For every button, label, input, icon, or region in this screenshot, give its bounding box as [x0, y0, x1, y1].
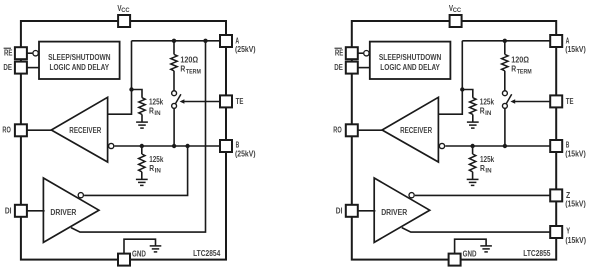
svg-text:IN: IN — [155, 168, 162, 175]
wire DI to driver input — [358, 210, 376, 212]
node switch junction on B line — [172, 144, 176, 148]
switch TE upper contact — [502, 91, 507, 96]
IC outline LTC2855 — [352, 21, 556, 260]
wire switch to B line — [504, 108, 506, 146]
svg-text:GND: GND — [463, 250, 477, 259]
svg-text:(15kV): (15kV) — [565, 199, 586, 208]
svg-text:TE: TE — [236, 97, 244, 106]
op-amp RECEIVER — [51, 97, 107, 162]
pin B — [220, 140, 232, 152]
op-amp RECEIVER — [382, 97, 438, 162]
svg-text:RECEIVER: RECEIVER — [400, 126, 432, 135]
svg-text:IN: IN — [485, 110, 492, 117]
node RIN1 junction — [129, 87, 133, 91]
wire receiver noninverting input — [438, 41, 462, 114]
svg-text:(15kV): (15kV) — [565, 150, 586, 159]
wire driver output to A line — [71, 41, 206, 232]
wire RIN2 to ground — [472, 172, 474, 180]
IC outline LTC2854 — [21, 21, 226, 260]
svg-text:DI: DI — [336, 207, 343, 216]
svg-text:R: R — [149, 163, 154, 173]
pin VCC — [118, 15, 130, 27]
op-amp DRIVER — [43, 178, 99, 242]
driver inverting output bubble — [409, 193, 414, 198]
wire RO to receiver output — [27, 129, 53, 131]
node RTERM junction on A line — [503, 39, 507, 43]
op-amp DRIVER — [374, 178, 430, 242]
pin A — [550, 35, 562, 47]
resistor RIN2 125k — [469, 154, 475, 172]
svg-text:RO: RO — [333, 126, 341, 135]
pin A — [220, 35, 232, 47]
wire RTERM to switch — [504, 71, 506, 91]
svg-text:DI: DI — [5, 207, 12, 216]
node RIN2 junction — [140, 144, 144, 148]
ground RIN2 — [136, 178, 148, 180]
wire to RIN1 — [132, 90, 143, 98]
svg-text:SLEEP/SHUTDOWN: SLEEP/SHUTDOWN — [379, 52, 441, 62]
wire B line — [445, 145, 550, 147]
ground symbol at GND — [480, 245, 492, 247]
svg-text:LOGIC AND DELAY: LOGIC AND DELAY — [50, 62, 110, 72]
wire receiver noninverting input — [108, 41, 132, 114]
svg-text:IN: IN — [485, 168, 492, 175]
arrowhead TE control — [180, 99, 185, 104]
node RTERM junction on A line — [172, 39, 176, 43]
svg-text:LTC2854: LTC2854 — [193, 249, 221, 258]
pin DI — [15, 205, 27, 217]
wire DE to logic block — [27, 67, 39, 69]
wire RTERM lead — [173, 41, 175, 55]
svg-text:DRIVER: DRIVER — [50, 208, 76, 217]
driver inverting output bubble — [78, 193, 83, 198]
wire RIN1 to ground — [472, 114, 474, 122]
svg-text:R: R — [149, 105, 154, 115]
block sleep/shutdown logic and delay — [39, 42, 120, 79]
wire TE control — [184, 101, 221, 103]
pin Y — [550, 226, 562, 238]
resistor RIN2 125k — [139, 154, 145, 172]
pin Z — [550, 189, 562, 201]
svg-text:RECEIVER: RECEIVER — [69, 126, 101, 135]
wire RIN1 to ground — [141, 114, 143, 122]
wire to RIN1 — [462, 90, 473, 98]
pin TE — [220, 95, 232, 107]
svg-text:RE: RE — [4, 48, 13, 57]
resistor RTERM 120ohm — [502, 54, 508, 70]
wire RTERM to switch — [173, 71, 175, 91]
svg-text:SLEEP/SHUTDOWN: SLEEP/SHUTDOWN — [48, 52, 110, 62]
block sleep/shutdown logic and delay — [370, 42, 451, 79]
svg-text:(25kV): (25kV) — [235, 45, 256, 54]
inverter bubble on RE input — [33, 51, 38, 56]
svg-text:(25kV): (25kV) — [235, 150, 256, 159]
wire B line — [115, 145, 221, 147]
node RIN2 junction — [470, 144, 474, 148]
resistor RIN1 125k — [139, 98, 145, 115]
inverter bubble on RE input — [364, 51, 369, 56]
wire RE to inverter bubble — [358, 52, 363, 54]
pin RO — [15, 124, 27, 136]
switch blade — [506, 94, 512, 104]
wire RE to inverter bubble — [27, 52, 33, 54]
pin RE — [15, 47, 27, 59]
switch TE upper contact — [172, 91, 177, 96]
resistor RTERM 120ohm — [171, 54, 177, 70]
pin RO — [346, 124, 358, 136]
svg-text:TERM: TERM — [517, 68, 532, 75]
wire A line — [462, 40, 550, 42]
svg-text:LOGIC AND DELAY: LOGIC AND DELAY — [380, 62, 440, 72]
wire RO to receiver output — [358, 129, 384, 131]
ground RIN1 — [136, 121, 148, 123]
node driver-B junction — [185, 144, 189, 148]
resistor RIN1 125k — [470, 98, 476, 115]
svg-text:DE: DE — [334, 63, 343, 72]
wire RIN2 to ground — [141, 172, 143, 180]
svg-text:CC: CC — [453, 7, 462, 14]
svg-text:Y: Y — [566, 227, 570, 236]
wire GND pin to ground symbol — [455, 239, 487, 253]
pin GND — [449, 254, 461, 266]
node driver-A junction — [203, 39, 207, 43]
switch TE lower contact — [172, 103, 177, 108]
svg-text:DRIVER: DRIVER — [381, 208, 407, 217]
svg-text:R: R — [180, 64, 185, 74]
wire driver inverting output to Z — [415, 194, 550, 196]
wire RIN2 lead — [472, 146, 474, 154]
ground symbol at GND — [150, 245, 162, 247]
pin DE — [15, 62, 27, 74]
wire RTERM lead — [504, 41, 506, 55]
wire switch to B line — [173, 108, 175, 146]
pin DI — [346, 205, 358, 217]
pin B — [550, 140, 562, 152]
pin TE — [550, 95, 562, 107]
switch blade — [175, 94, 181, 104]
svg-text:R: R — [480, 163, 485, 173]
receiver inverting input bubble — [109, 143, 114, 148]
svg-text:DE: DE — [3, 63, 12, 72]
svg-text:GND: GND — [132, 250, 146, 259]
pin VCC — [450, 15, 462, 27]
wire TE control — [514, 101, 550, 103]
pin DE — [346, 62, 358, 74]
pin RE — [346, 47, 358, 59]
svg-text:LTC2855: LTC2855 — [523, 249, 551, 258]
svg-text:IN: IN — [154, 110, 161, 117]
svg-text:R: R — [480, 105, 485, 115]
switch TE lower contact — [502, 103, 507, 108]
node RIN1 junction — [460, 87, 464, 91]
ground RIN1 — [467, 121, 479, 123]
wire DI to driver input — [27, 210, 45, 212]
svg-text:B: B — [236, 140, 240, 149]
wire A line — [132, 40, 221, 42]
svg-text:CC: CC — [121, 7, 130, 14]
svg-text:R: R — [511, 64, 516, 74]
svg-text:RO: RO — [2, 126, 10, 135]
svg-text:B: B — [566, 140, 570, 149]
receiver inverting input bubble — [439, 143, 444, 148]
wire driver inverting output to B line — [84, 146, 188, 195]
ground RIN2 — [467, 178, 479, 180]
pin GND — [118, 254, 130, 266]
wire DE to logic block — [358, 67, 370, 69]
wire driver output to Y — [402, 228, 550, 233]
node switch junction on B line — [503, 144, 507, 148]
svg-text:RE: RE — [335, 48, 344, 57]
svg-text:(15kV): (15kV) — [565, 236, 586, 245]
wire RIN2 lead — [141, 146, 143, 154]
wire GND pin to ground symbol — [124, 239, 156, 253]
svg-text:TE: TE — [566, 97, 574, 106]
arrowhead TE control — [510, 99, 515, 104]
svg-text:(15kV): (15kV) — [565, 45, 586, 54]
svg-text:TERM: TERM — [186, 68, 201, 75]
